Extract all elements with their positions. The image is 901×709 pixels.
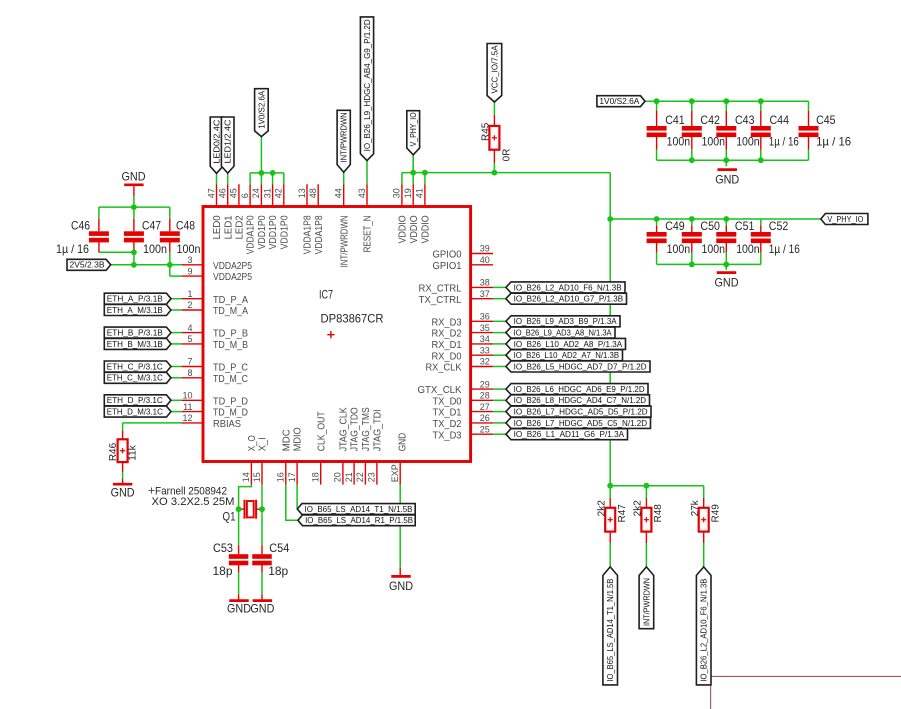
svg-text:IO_B26_L1_AD11_G6_P/1.3A: IO_B26_L1_AD11_G6_P/1.3A [514, 429, 625, 439]
svg-text:C54: C54 [269, 541, 289, 555]
svg-text:ETH_C_M/3.1C: ETH_C_M/3.1C [107, 373, 163, 383]
svg-text:12: 12 [182, 413, 192, 423]
svg-text:39: 39 [480, 244, 490, 254]
svg-text:XO 3.2X2.5 25M: XO 3.2X2.5 25M [152, 496, 235, 508]
svg-text:GND: GND [227, 602, 251, 616]
svg-text:C48: C48 [176, 218, 195, 232]
svg-text:IC7: IC7 [319, 288, 333, 302]
svg-text:100n: 100n [702, 242, 726, 256]
svg-text:47: 47 [206, 188, 216, 198]
svg-text:GND: GND [715, 172, 739, 186]
svg-text:LED1: LED1 [222, 215, 234, 239]
svg-text:IO_B26_L2_AD10_F6_N/1.3B: IO_B26_L2_AD10_F6_N/1.3B [514, 282, 622, 292]
svg-text:3: 3 [187, 255, 192, 265]
svg-text:INT/PWRDWN: INT/PWRDWN [641, 578, 651, 626]
svg-text:C52: C52 [769, 219, 789, 233]
svg-text:4: 4 [187, 323, 192, 333]
svg-text:2V5/2.3B: 2V5/2.3B [70, 260, 105, 270]
svg-text:VDDIO: VDDIO [408, 215, 420, 243]
svg-text:TD_P_B: TD_P_B [213, 328, 248, 340]
svg-text:RBIAS: RBIAS [213, 418, 241, 430]
svg-text:1µ / 16: 1µ / 16 [769, 134, 799, 148]
svg-text:VDDA1P8: VDDA1P8 [313, 215, 325, 254]
svg-text:VDDIO: VDDIO [397, 215, 409, 243]
svg-text:40: 40 [480, 255, 490, 265]
svg-text:EXP: EXP [390, 464, 400, 482]
svg-text:TX_D2: TX_D2 [433, 418, 462, 430]
svg-text:RX_D0: RX_D0 [432, 350, 462, 362]
svg-text:45: 45 [229, 188, 239, 198]
svg-text:VDDA2P5: VDDA2P5 [213, 271, 252, 283]
svg-text:IO_B26_L9_AD3_B9_P/1.3A: IO_B26_L9_AD3_B9_P/1.3A [514, 316, 617, 326]
svg-text:10: 10 [182, 391, 192, 401]
svg-text:100n: 100n [143, 242, 167, 256]
svg-text:C46: C46 [71, 218, 90, 232]
svg-text:TD_P_C: TD_P_C [213, 362, 248, 374]
svg-text:GND: GND [250, 602, 274, 616]
svg-text:1V0/S2.6A: 1V0/S2.6A [256, 91, 266, 129]
svg-text:46: 46 [218, 188, 228, 198]
svg-text:LED2: LED2 [234, 215, 246, 239]
svg-text:ETH_A_P/3.1B: ETH_A_P/3.1B [107, 294, 163, 304]
svg-text:TD_M_C: TD_M_C [213, 373, 248, 385]
svg-text:6: 6 [240, 193, 250, 198]
svg-text:32: 32 [480, 357, 490, 367]
svg-text:RX_CTRL: RX_CTRL [419, 283, 462, 295]
svg-text:ETH_C_P/3.1C: ETH_C_P/3.1C [107, 361, 163, 371]
svg-text:GND: GND [122, 170, 146, 184]
svg-text:36: 36 [480, 312, 490, 322]
svg-text:TX_CTRL: TX_CTRL [419, 294, 462, 306]
svg-text:1V0/S2.6A: 1V0/S2.6A [599, 96, 639, 106]
svg-text:34: 34 [480, 334, 490, 344]
svg-text:43: 43 [357, 188, 367, 198]
svg-text:IO_B65_LS_AD14_T1_N/1.5B: IO_B65_LS_AD14_T1_N/1.5B [605, 578, 615, 681]
svg-text:7: 7 [187, 357, 192, 367]
svg-text:C49: C49 [665, 219, 685, 233]
svg-text:C41: C41 [665, 113, 685, 127]
svg-text:MDC: MDC [280, 429, 292, 451]
svg-text:33: 33 [480, 345, 490, 355]
svg-text:R45: R45 [480, 122, 491, 141]
svg-text:26: 26 [480, 413, 490, 423]
svg-text:100n: 100n [667, 134, 691, 148]
svg-text:ETH_A_M/3.1B: ETH_A_M/3.1B [107, 305, 163, 315]
svg-text:5: 5 [187, 334, 192, 344]
svg-text:22: 22 [355, 472, 365, 482]
svg-text:RX_D3: RX_D3 [432, 316, 462, 328]
svg-text:41: 41 [415, 188, 425, 198]
svg-text:GND: GND [396, 432, 408, 451]
svg-text:TX_D1: TX_D1 [433, 407, 462, 419]
svg-text:TX_D0: TX_D0 [433, 395, 462, 407]
svg-text:100n: 100n [702, 134, 726, 148]
svg-text:C47: C47 [142, 218, 161, 232]
svg-text:IO_B26_L10_AD2_A7_N/1.3B: IO_B26_L10_AD2_A7_N/1.3B [514, 350, 620, 360]
svg-text:IO_B26_L9_AD3_A8_N/1.3A: IO_B26_L9_AD3_A8_N/1.3A [514, 328, 612, 338]
svg-text:16: 16 [276, 472, 286, 482]
svg-text:C43: C43 [735, 113, 755, 127]
svg-text:CLK_OUT: CLK_OUT [315, 411, 327, 451]
svg-text:17: 17 [287, 472, 297, 482]
svg-text:DP83867CR: DP83867CR [321, 311, 384, 325]
svg-text:RX_CLK: RX_CLK [426, 362, 462, 374]
svg-text:GTX_CLK: GTX_CLK [418, 384, 462, 396]
svg-text:24: 24 [251, 188, 261, 198]
svg-text:11: 11 [183, 402, 192, 412]
svg-text:V_PHY_IO: V_PHY_IO [408, 112, 418, 146]
svg-text:TX_D3: TX_D3 [433, 429, 462, 441]
svg-text:GPIO1: GPIO1 [433, 260, 462, 272]
svg-text:RX_D1: RX_D1 [432, 339, 462, 351]
svg-text:GND: GND [389, 579, 413, 593]
svg-text:IO_B26_L5_HDGC_AD7_D7_P/1.2D: IO_B26_L5_HDGC_AD7_D7_P/1.2D [514, 361, 647, 371]
svg-text:0R: 0R [501, 149, 512, 162]
svg-text:IO_B26_L2_AD10_G7_P/1.3B: IO_B26_L2_AD10_G7_P/1.3B [514, 294, 624, 304]
svg-text:8: 8 [187, 368, 192, 378]
svg-text:19: 19 [403, 188, 413, 198]
svg-text:9: 9 [187, 266, 192, 276]
svg-text:C45: C45 [816, 113, 836, 127]
svg-text:R49: R49 [710, 504, 721, 523]
svg-text:29: 29 [480, 379, 490, 389]
svg-text:IO_B26_L7_HDGC_AD5_D5_P/1.2D: IO_B26_L7_HDGC_AD5_D5_P/1.2D [514, 407, 648, 417]
svg-text:GND: GND [111, 486, 135, 500]
svg-text:MDIO: MDIO [292, 427, 304, 451]
svg-text:44: 44 [334, 188, 344, 198]
svg-text:30: 30 [392, 188, 402, 198]
svg-text:TD_P_A: TD_P_A [213, 294, 248, 306]
svg-text:VDD1P0: VDD1P0 [267, 215, 279, 249]
svg-text:2k2: 2k2 [633, 500, 644, 517]
svg-text:VDD1P0: VDD1P0 [278, 215, 290, 249]
svg-text:VCC_IO/7.5A: VCC_IO/7.5A [489, 45, 499, 93]
svg-text:VDD1P0: VDD1P0 [256, 215, 268, 249]
svg-text:20: 20 [333, 472, 343, 482]
svg-text:IO_B65_LS_AD14_R1_P/1.5B: IO_B65_LS_AD14_R1_P/1.5B [305, 515, 413, 525]
svg-text:ETH_B_M/3.1B: ETH_B_M/3.1B [107, 339, 163, 349]
svg-text:IO_B26_L9_HDGC_AB4_G9_P/1.2D: IO_B26_L9_HDGC_AB4_G9_P/1.2D [362, 19, 372, 151]
svg-text:R47: R47 [617, 504, 628, 523]
svg-text:1: 1 [187, 289, 192, 299]
svg-text:VDDIO: VDDIO [420, 215, 432, 243]
svg-text:100n: 100n [736, 242, 760, 256]
svg-text:R46: R46 [108, 442, 119, 461]
svg-text:IO_B26_L2_AD10_F6_N/1.3B: IO_B26_L2_AD10_F6_N/1.3B [699, 578, 709, 681]
svg-text:IO_B26_L8_HDGC_AD4_C7_N/1.2D: IO_B26_L8_HDGC_AD4_C7_N/1.2D [514, 395, 647, 405]
svg-text:RESET_N: RESET_N [362, 215, 374, 252]
svg-text:RX_D2: RX_D2 [432, 328, 462, 340]
svg-text:LED0/2.4C: LED0/2.4C [211, 120, 221, 164]
svg-text:TD_M_D: TD_M_D [213, 407, 248, 419]
svg-text:LED0: LED0 [211, 215, 223, 239]
svg-text:38: 38 [480, 278, 490, 288]
svg-text:GPIO0: GPIO0 [433, 249, 462, 261]
svg-text:ETH_B_P/3.1B: ETH_B_P/3.1B [107, 328, 163, 338]
svg-text:VDDA1P8: VDDA1P8 [302, 215, 314, 254]
svg-text:35: 35 [480, 323, 490, 333]
svg-text:28: 28 [480, 391, 490, 401]
svg-text:2k2: 2k2 [597, 500, 608, 517]
svg-text:18p: 18p [268, 564, 288, 578]
svg-text:37: 37 [480, 289, 490, 299]
svg-text:V_PHY_IO: V_PHY_IO [827, 214, 863, 224]
svg-text:21: 21 [344, 472, 354, 482]
svg-text:IO_B26_L10_AD2_A8_P/1.3A: IO_B26_L10_AD2_A8_P/1.3A [514, 339, 623, 349]
svg-text:18: 18 [311, 472, 321, 482]
svg-text:INT/PWRDWN: INT/PWRDWN [338, 215, 350, 267]
svg-text:IO_B26_L6_HDGC_AD6_E9_P/1.2D: IO_B26_L6_HDGC_AD6_E9_P/1.2D [514, 384, 645, 394]
svg-text:23: 23 [367, 472, 377, 482]
svg-text:JTAG_TDO: JTAG_TDO [349, 407, 361, 451]
svg-text:100n: 100n [667, 242, 691, 256]
svg-text:11k: 11k [128, 444, 139, 460]
svg-text:GND: GND [715, 276, 739, 290]
svg-text:JTAG_CLK: JTAG_CLK [338, 407, 350, 451]
svg-text:C42: C42 [700, 113, 720, 127]
svg-text:LED1/2.4C: LED1/2.4C [223, 120, 233, 164]
svg-text:IO_B26_L7_HDGC_AD5_C5_N/1.2D: IO_B26_L7_HDGC_AD5_C5_N/1.2D [514, 418, 648, 428]
svg-text:31: 31 [262, 188, 272, 198]
svg-text:VDDA2P5: VDDA2P5 [213, 260, 252, 272]
svg-text:Q1: Q1 [223, 509, 236, 523]
svg-text:ETH_D_M/3.1C: ETH_D_M/3.1C [107, 407, 163, 417]
svg-text:IO_B65_LS_AD14_T1_N/1.5B: IO_B65_LS_AD14_T1_N/1.5B [305, 504, 413, 514]
svg-text:JTAG_TDI: JTAG_TDI [372, 409, 384, 451]
svg-text:TD_P_D: TD_P_D [213, 395, 248, 407]
svg-text:C50: C50 [700, 219, 720, 233]
svg-text:27: 27 [480, 402, 490, 412]
svg-text:C53: C53 [213, 541, 233, 555]
svg-text:TD_M_B: TD_M_B [213, 339, 248, 351]
svg-text:C51: C51 [735, 219, 755, 233]
svg-text:25: 25 [480, 424, 490, 434]
svg-text:42: 42 [274, 188, 284, 198]
svg-text:1µ / 16: 1µ / 16 [56, 242, 89, 256]
svg-text:13: 13 [297, 188, 307, 198]
svg-text:1µ / 16: 1µ / 16 [769, 242, 800, 256]
svg-text:C44: C44 [770, 113, 790, 127]
svg-text:TD_M_A: TD_M_A [213, 305, 248, 317]
svg-text:27k: 27k [690, 499, 701, 516]
svg-text:INT/PWRDWN: INT/PWRDWN [339, 112, 349, 162]
svg-text:100n: 100n [736, 134, 760, 148]
svg-text:X_I: X_I [257, 437, 269, 451]
svg-text:ETH_D_P/3.1C: ETH_D_P/3.1C [107, 395, 163, 405]
svg-text:15: 15 [252, 472, 262, 482]
svg-text:18p: 18p [213, 564, 233, 578]
svg-text:14: 14 [241, 472, 251, 482]
svg-text:48: 48 [308, 188, 318, 198]
svg-text:1µ / 16: 1µ / 16 [816, 134, 851, 148]
svg-text:2: 2 [187, 300, 192, 310]
svg-text:VDDA1P0: VDDA1P0 [245, 215, 257, 254]
svg-text:R48: R48 [653, 504, 664, 523]
svg-text:JTAG_TMS: JTAG_TMS [360, 407, 372, 451]
